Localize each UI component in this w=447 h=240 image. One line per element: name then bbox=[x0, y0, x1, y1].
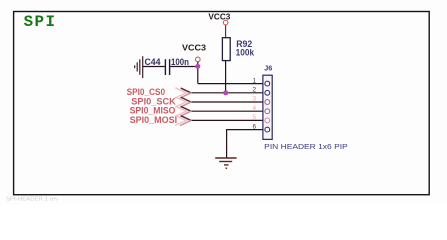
svg-text:6: 6 bbox=[252, 123, 256, 130]
sheet frame bbox=[14, 12, 430, 195]
resistor R92 body bbox=[222, 38, 230, 61]
wire pin1 net horizontal bbox=[198, 83, 265, 85]
ground symbol (bottom) bbox=[215, 158, 236, 168]
connector J6 pad pin 4 bbox=[265, 109, 270, 114]
wire net SPI0_MOSI to pin5 bbox=[191, 119, 265, 121]
chevron arrow CS0 bbox=[176, 88, 191, 98]
junction dot at VCC3/C44 bbox=[195, 64, 200, 69]
connector J6 pad pin 2 bbox=[265, 90, 270, 95]
svg-text:SPI-HEADER 1 rev: SPI-HEADER 1 rev bbox=[6, 197, 58, 203]
svg-text:2: 2 bbox=[252, 87, 256, 94]
wire C44 right plate to VCC junction bbox=[170, 66, 198, 68]
wire VCC3 to R92 top bbox=[225, 25, 227, 38]
svg-text:C44: C44 bbox=[145, 57, 161, 67]
svg-text:J6: J6 bbox=[264, 63, 272, 72]
chevron arrow MISO bbox=[176, 107, 191, 117]
wire ground to C44 left plate bbox=[143, 66, 165, 68]
wire pin6 to ground bbox=[227, 130, 265, 158]
ground (rotated) at C44 bbox=[135, 56, 143, 78]
wire net SPI0_SCK to pin3 bbox=[191, 101, 265, 103]
wire R92 bottom down to CS0 net bbox=[225, 61, 227, 93]
connector J6 pad pin 6 bbox=[265, 127, 270, 132]
svg-text:3: 3 bbox=[252, 96, 256, 103]
svg-text:5: 5 bbox=[252, 114, 256, 121]
connector J6 box bbox=[263, 75, 272, 139]
svg-text:SPI: SPI bbox=[24, 13, 57, 31]
connector J6 pad pin 5 bbox=[265, 118, 270, 123]
svg-text:VCC3: VCC3 bbox=[182, 43, 206, 53]
connector J6 pad pin 1 bbox=[265, 81, 270, 86]
chevron arrow MOSI bbox=[176, 116, 191, 126]
svg-text:1: 1 bbox=[252, 77, 256, 84]
power VCC3 (top) circle symbol bbox=[223, 20, 228, 25]
svg-text:100n: 100n bbox=[171, 57, 189, 67]
svg-text:SPI0_MOSI: SPI0_MOSI bbox=[130, 115, 178, 125]
wire VCC3 circle to junction and down to pin1 line bbox=[197, 62, 199, 84]
svg-text:VCC3: VCC3 bbox=[208, 12, 230, 22]
svg-text:4: 4 bbox=[252, 105, 256, 112]
chevron arrow SCK bbox=[176, 97, 191, 107]
wire net SPI0_CS0 to pin2 bbox=[191, 92, 265, 94]
wire net SPI0_MISO to pin4 bbox=[191, 110, 265, 112]
capacitor C44 plates bbox=[164, 59, 166, 75]
junction dot R92/CS0 bbox=[223, 90, 228, 95]
connector J6 pad pin 3 bbox=[265, 100, 270, 105]
power VCC3 (left) circle symbol bbox=[196, 57, 201, 62]
svg-text:100k: 100k bbox=[236, 47, 255, 57]
svg-text:PIN HEADER 1x6 PIP: PIN HEADER 1x6 PIP bbox=[264, 142, 348, 151]
